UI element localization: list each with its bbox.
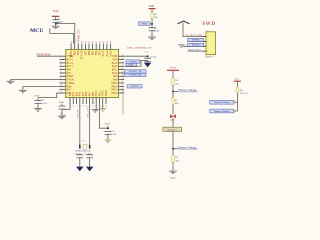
schematic title MCU (30, 28, 43, 34)
U1 pin name PB2 (92, 91, 95, 96)
label C8 0.1uF (154, 27, 160, 33)
U1 pin name PA3 (69, 91, 72, 96)
capacitor C7 (86, 155, 93, 158)
svg-text:VDD: VDD (149, 5, 155, 8)
svg-text:0.1uF: 0.1uF (154, 30, 160, 33)
svg-text:0.1uF: 0.1uF (60, 114, 66, 117)
label R5 10k (175, 99, 179, 105)
svg-text:PB9: PB9 (74, 50, 77, 55)
U1 pin name PB8 (77, 50, 80, 55)
svg-text:VDDA_FILTERED_3V3: VDDA_FILTERED_3V3 (127, 47, 153, 50)
label R3 10k (175, 156, 179, 162)
J1 pin 3 (203, 46, 208, 48)
U1 pin name PB11 (98, 90, 101, 96)
svg-text:PB4: PB4 (95, 50, 98, 55)
wire pin23 to ground (102, 104, 104, 109)
svg-text:PB3: PB3 (99, 50, 102, 55)
J1 pin 4 (203, 51, 208, 53)
ground (SWD) (178, 45, 185, 48)
wire sense stub 2 (234, 110, 238, 112)
label Header 5 (205, 56, 215, 59)
U1 pin name VSS (113, 58, 118, 61)
label R4 10k (240, 89, 249, 95)
resistor R1 (151, 13, 154, 19)
svg-text:40: 40 (100, 41, 102, 43)
ground (C2) (34, 109, 42, 112)
svg-text:36: 36 (122, 55, 124, 57)
power port VDD (C3) (59, 101, 65, 104)
wire bottom pin13 to C3 (62, 104, 70, 109)
U1 pin name PB12 (112, 92, 119, 95)
U1 left pin 8 (VSSA) (60, 78, 66, 80)
U1 right pin 30 (PA9) (119, 75, 125, 77)
ground (C5, filled) (144, 63, 152, 68)
U1 pin name PA8 (113, 79, 118, 82)
wire step to C5 (124, 60, 147, 66)
svg-text:16MHz/9pF/20p: 16MHz/9pF/20p (75, 150, 92, 153)
label C5 0.1uF (151, 56, 157, 59)
U1 pin name PB1 (89, 91, 92, 96)
svg-text:PB5: PB5 (91, 50, 94, 55)
port SWDIO (SWD) (188, 38, 204, 41)
U1 right pin 28 (PB15) (119, 81, 125, 83)
svg-text:SWDIO: SWDIO (129, 61, 137, 63)
wire VDD net to top pins (lower) (50, 28, 74, 43)
U1 left pin 10 (PA0) (60, 85, 66, 87)
U1 pin name PC13 (67, 58, 74, 61)
svg-text:BOOT0: BOOT0 (81, 50, 84, 59)
svg-text:Battery Voltage: Battery Voltage (214, 101, 229, 104)
svg-text:42: 42 (92, 41, 94, 43)
capacitor C4 (105, 131, 112, 134)
node VDD junction (55, 22, 57, 24)
svg-text:12: 12 (60, 91, 62, 93)
svg-text:C7 22p: C7 22p (85, 153, 93, 155)
ground (C3) (58, 116, 66, 119)
svg-text:0.1uF: 0.1uF (151, 56, 157, 59)
U1 pin name PA0 (67, 85, 72, 88)
U1 pin name PA7 (82, 91, 85, 96)
U1 pin name PF0 (67, 69, 72, 72)
svg-text:+BATT: +BATT (169, 67, 177, 70)
U1 left pin 7 (NRST) (60, 75, 66, 77)
U1 pin name VSSA (67, 79, 74, 82)
svg-text:VDD: VDD (59, 101, 65, 104)
net label 3V3 (SWD) (185, 34, 202, 37)
port PA12 (boxed) (126, 63, 137, 66)
wire VDD to R1 (151, 9, 153, 13)
svg-text:28: 28 (122, 81, 124, 83)
U1 right pin 31 (PA10) (119, 71, 125, 73)
resistor R2 (172, 78, 175, 86)
svg-text:38: 38 (107, 41, 109, 43)
U1 pin name PA14 (106, 50, 109, 56)
svg-text:33: 33 (122, 65, 124, 67)
svg-text:0.1uF: 0.1uF (41, 102, 47, 105)
ground (C6, filled) (76, 167, 84, 172)
capacitor C5 (144, 58, 151, 61)
svg-text:PB8: PB8 (77, 50, 80, 55)
svg-text:1: 1 (207, 37, 208, 39)
capacitor C2 (35, 100, 42, 103)
U1 left pin 12 (PA2) (60, 91, 66, 93)
label GND (170, 177, 176, 180)
ground below C1 (52, 24, 60, 29)
U1 top pin 37 (VSS2) (110, 41, 112, 50)
U1 top pin 44 (PB7) (85, 41, 87, 50)
net label VDDA (above wire) (127, 47, 153, 50)
U1 bottom pin 22 (PB11) (99, 98, 101, 108)
ground (left, VSS) (19, 90, 27, 93)
U1 pin name PB13 (112, 89, 119, 92)
U1 left pin 3 (PC14) (60, 61, 66, 63)
wire VSS to ground (23, 86, 60, 90)
U1 pin name PB14 (112, 85, 119, 88)
svg-text:27: 27 (122, 85, 124, 87)
svg-text:Header 5: Header 5 (205, 56, 215, 59)
svg-text:VSS2: VSS2 (109, 50, 112, 57)
wire pin22 to C4 node (99, 104, 107, 128)
svg-text:VDD: VDD (34, 94, 40, 97)
U1 left pin 6 (PF1) (60, 71, 66, 73)
svg-text:39: 39 (103, 41, 105, 43)
capacitor C3 (59, 106, 66, 109)
U1 pin name PB0 (85, 91, 88, 96)
svg-text:Battery Voltage: Battery Voltage (214, 110, 229, 113)
power port VDD (C4) (104, 123, 110, 129)
U1 pin name VSS2 (109, 50, 112, 57)
node NRST (151, 23, 153, 25)
MCU U1 body (66, 50, 119, 98)
svg-text:10: 10 (60, 85, 62, 87)
U1 pin name PA5 (75, 91, 78, 96)
svg-text:37: 37 (110, 41, 112, 43)
wire C2 to ground (37, 103, 39, 109)
U1 pin name VDD1 (105, 89, 108, 97)
svg-text:PB7: PB7 (84, 50, 87, 55)
U1 pin name PA15 (102, 50, 105, 56)
svg-text:+3V3: +3V3 (233, 78, 239, 81)
label C1 0.1uF (57, 18, 63, 24)
ground (left, VSSA) (6, 81, 14, 84)
svg-text:VDD: VDD (104, 123, 110, 126)
net label NRST (SWD) (188, 49, 201, 52)
U1 left pin 1 (VBAT) (60, 55, 66, 57)
wire NRST stub (150, 23, 152, 25)
U1 pin name PA10 (112, 72, 119, 75)
U1 pin name VDD (112, 55, 118, 58)
U1 pin name PA6 (79, 91, 82, 96)
U1 top pin 41 (PB4) (96, 41, 98, 50)
svg-text:41: 41 (96, 41, 98, 43)
svg-text:3: 3 (60, 61, 61, 63)
svg-text:PA15: PA15 (102, 50, 105, 56)
U1 top pin 48 (VDD2) (71, 41, 73, 50)
net label OSC_IN (vertical) (78, 109, 80, 117)
U1 right pin 36 (VDD) (119, 55, 125, 57)
ground (C4, tan) (104, 140, 111, 143)
U1 right pin 29 (PA8) (119, 78, 125, 80)
U1 bottom pin 19 (PB1) (90, 98, 92, 108)
connector J1 body (206, 32, 216, 55)
schematic sheet background (0, 0, 262, 192)
wire R2 to node (172, 86, 174, 92)
capacitor C6 (76, 155, 83, 158)
svg-text:MCU: MCU (30, 28, 43, 34)
U1 pin name PB9 (74, 50, 77, 55)
U1 pin name PB3 (99, 50, 102, 55)
wire C8 to ground (151, 30, 153, 37)
wire C3 top (61, 103, 63, 105)
port SWCLK (SWD) (188, 43, 204, 46)
svg-text:OSC_OUT: OSC_OUT (87, 107, 89, 118)
svg-text:4: 4 (60, 65, 61, 67)
U1 bottom pin 13 (PA3) (70, 98, 72, 108)
wire OSC_OUT (89, 104, 91, 146)
wire J1 pin4 (188, 50, 206, 52)
svg-text:48: 48 (71, 41, 73, 43)
label C3 0.1uF (60, 111, 66, 117)
svg-text:OSC_IN: OSC_IN (78, 109, 80, 117)
svg-text:44: 44 (85, 41, 87, 43)
U1 pin name PC14 (67, 62, 74, 65)
wire C3 to ground (61, 109, 63, 116)
power port VDD (C2) (34, 94, 40, 97)
U1 bottom pin 24 (VDD1) (106, 98, 108, 108)
capacitor C8 (149, 28, 156, 31)
U1 bottom pin 15 (PA5) (76, 98, 78, 108)
label R1 10k (154, 13, 158, 19)
wire C6 to ground (79, 157, 81, 166)
U1 pin name PA9 (113, 75, 118, 78)
U1 right pin 32 (PA11) (119, 68, 125, 70)
svg-text:45: 45 (82, 41, 84, 43)
label D1 (170, 117, 175, 122)
svg-text:9: 9 (60, 81, 61, 83)
U1 bottom pin 21 (PB10) (96, 98, 98, 108)
wire VDD pin to C2 (38, 93, 60, 98)
svg-text:NRST: NRST (141, 23, 147, 25)
U1 left pin 2 (PC13) (60, 58, 66, 60)
svg-text:20: 20 (93, 105, 95, 107)
ground (bottom, tan) (99, 109, 106, 112)
U1 top pin 45 (BOOT0) (82, 41, 84, 50)
svg-text:11: 11 (60, 88, 62, 90)
wire VDD to C1 (55, 17, 57, 19)
crystal Y1 (80, 144, 90, 149)
svg-text:3: 3 (207, 46, 208, 48)
U1 top pin 47 (PB9) (75, 41, 77, 50)
node battery sense 1 (172, 91, 174, 93)
wire battery label stub 1 (173, 91, 178, 93)
U1 pin name PB6 (88, 50, 91, 55)
ground (bottom, gray) (91, 110, 99, 113)
svg-text:SWD: SWD (202, 21, 216, 27)
svg-text:SWCLK: SWCLK (131, 86, 139, 88)
svg-text:32: 32 (122, 68, 124, 70)
U1 pin name PB10 (95, 90, 98, 96)
port PA13 (boxed) (126, 60, 140, 63)
port Battery Voltage 2 (boxed) (210, 109, 234, 113)
U1 pin name PC15 (67, 65, 74, 68)
wire C5 to ground (147, 60, 149, 62)
power port VDD (NRST) (149, 5, 156, 9)
power port VDD (top-left) (52, 10, 59, 16)
wire C7 to ground (89, 157, 91, 166)
U1 pin name PB15 (112, 82, 119, 85)
U1 bottom pin 23 (VSS1) (103, 98, 105, 108)
label C6 22pF (74, 153, 82, 155)
wire C1 to node (55, 22, 57, 25)
U1 pin name VDD2 (70, 50, 73, 58)
wire VSSA to ground (10, 80, 59, 82)
svg-text:43: 43 (89, 41, 91, 43)
power port 3V3 (sense) (233, 78, 241, 81)
svg-text:24: 24 (106, 105, 108, 107)
net label Battery Voltage 2 (178, 145, 198, 149)
svg-text:VBAT/PB14: VBAT/PB14 (36, 54, 51, 57)
U1 pin name PA11 (112, 69, 118, 72)
J1 pin 1 (203, 37, 208, 39)
svg-text:0.1uF: 0.1uF (111, 133, 117, 136)
wire VBAT stub (37, 55, 60, 57)
wire 3V3 to R4 (236, 81, 238, 87)
port Battery+ (tan box) (163, 127, 182, 131)
svg-text:15: 15 (76, 105, 78, 107)
wire VDD net to top pins (upper) (56, 24, 75, 44)
power port 3V3 (SWD) (178, 21, 190, 24)
U1 left pin 4 (PC15) (60, 65, 66, 67)
label Y1 (82, 139, 86, 142)
U1 pin name PA13 (112, 62, 119, 65)
power port VBAT (167, 67, 179, 71)
svg-text:29: 29 (122, 78, 124, 80)
svg-text:1: 1 (60, 55, 61, 57)
svg-text:35: 35 (122, 58, 124, 60)
U1 pin name PA4 (72, 91, 75, 96)
wire pin21 to ground (95, 104, 97, 110)
wire C5 top (147, 56, 149, 58)
U1 left pin 9 (VDDA) (60, 81, 66, 83)
U1 right pin 34 (PA13) (119, 61, 125, 63)
ground (C8) (148, 37, 156, 40)
J1 pin 2 (203, 41, 208, 43)
label 16MHz (75, 150, 92, 153)
U1 pin name VSS1 (102, 90, 105, 97)
wire node to D1 (172, 92, 174, 115)
node C4 (107, 127, 109, 129)
svg-text:SWDIO: SWDIO (192, 40, 200, 42)
net label VBAT/PB14 (36, 54, 51, 57)
svg-text:PB6: PB6 (88, 50, 91, 55)
svg-text:8: 8 (60, 78, 61, 80)
net label Battery Voltage 1 (178, 88, 198, 92)
svg-text:VDD1: VDD1 (105, 89, 108, 97)
wire C4 to ground (107, 134, 109, 140)
U1 pin name VBAT (67, 55, 74, 58)
svg-text:PA14: PA14 (106, 50, 109, 56)
U1 top pin 39 (PA15) (103, 41, 105, 50)
label C2 0.1uF (41, 99, 47, 105)
wire battery label stub 2 (173, 148, 178, 150)
U1 bottom pin 17 (PA7) (83, 98, 85, 108)
port USART TX (boxed) (125, 70, 147, 73)
resistor R4 (236, 87, 239, 93)
svg-text:VDD2: VDD2 (70, 50, 73, 58)
U1 bottom pin 20 (PB2) (93, 98, 95, 108)
label R2 10k (175, 79, 179, 85)
wire J1 pin3 (183, 45, 206, 47)
svg-text:NRST_MCU: NRST_MCU (188, 49, 201, 52)
wire VBAT to R2 (172, 70, 174, 78)
wire BOOT (tan) (122, 90, 124, 115)
U1 pin name PA12 (112, 65, 119, 68)
U1 right pin 27 (PB14) (119, 85, 125, 87)
wire 3V3 to J1 pin1 (183, 23, 206, 37)
U1 right pin 33 (PA12) (119, 65, 125, 67)
net label VDD (vertical, above U1) (77, 28, 80, 41)
label C5 designator (144, 52, 149, 54)
resistor R5 (172, 98, 175, 104)
port Battery Voltage 1 (boxed) (210, 100, 234, 104)
wire node to C8 (151, 24, 153, 28)
wire R1 to node (151, 18, 153, 24)
net label OSC_OUT (vertical) (87, 107, 89, 118)
port SWCLK (boxed) (127, 85, 142, 88)
U1 pin name PF1 (67, 72, 72, 75)
U1 pin name VDDA (67, 82, 75, 85)
U1 top pin 46 (PB8) (78, 41, 80, 50)
label C4 10uF (111, 130, 117, 136)
svg-text:VDD_3V3: VDD_3V3 (77, 28, 80, 41)
svg-text:17: 17 (83, 105, 85, 107)
U1 pin name PA2 (67, 92, 72, 95)
node battery sense 2 (172, 148, 174, 150)
svg-text:4: 4 (207, 51, 208, 53)
U1 top pin 38 (PA14) (107, 41, 109, 50)
capacitor C1 (52, 20, 59, 23)
U1 top pin 43 (PB6) (89, 41, 91, 50)
wire port to node 2 (172, 131, 174, 148)
svg-text:SWCLK: SWCLK (192, 45, 200, 47)
U1 pin name PB7 (84, 50, 87, 55)
U1 bottom pin 18 (PB0) (86, 98, 88, 108)
svg-text:Battery Voltage: Battery Voltage (178, 145, 197, 149)
svg-text:0.1uF: 0.1uF (57, 20, 63, 23)
U1 pin name BOOT0 (81, 50, 84, 59)
U1 pin name PB4 (95, 50, 98, 55)
ground (C7, filled) (86, 167, 94, 172)
diode D1 (170, 114, 176, 118)
wire VDDA (124, 55, 147, 57)
U1 right pin 26 (PB13) (119, 88, 125, 90)
svg-text:31: 31 (122, 71, 124, 73)
svg-text:7: 7 (60, 75, 61, 77)
U1 pin name NRST (67, 75, 74, 78)
label J1 (206, 30, 209, 33)
svg-text:2: 2 (60, 58, 61, 60)
label C7 22pF (85, 153, 93, 155)
port NRST (boxed) (139, 22, 151, 26)
svg-text:VDD: VDD (53, 10, 59, 13)
svg-text:2: 2 (207, 41, 208, 43)
svg-text:18: 18 (86, 105, 88, 107)
svg-text:GND: GND (170, 177, 176, 180)
U1 top pin 42 (PB5) (92, 41, 94, 50)
wire J1 pin2 (188, 41, 206, 43)
U1 left pin 11 (PA1) (60, 88, 66, 90)
U1 pin name PA1 (67, 89, 72, 92)
